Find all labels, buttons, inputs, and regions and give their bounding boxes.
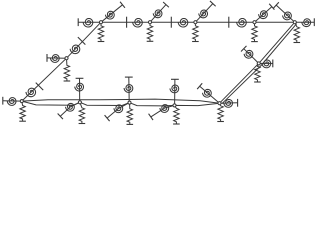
- wire stub B1: [3, 100, 22, 102]
- inductor L10: [283, 12, 292, 20]
- terminal stub T5: [274, 2, 279, 8]
- wire stub B3 up: [128, 77, 130, 103]
- wire stub B4 up: [174, 79, 176, 105]
- wire left diagonal lower segment: [22, 58, 67, 101]
- inductor L5: [302, 19, 311, 27]
- wire left diagonal upper segment: [67, 22, 102, 58]
- capacitor C2: [170, 17, 172, 28]
- wire stub B2 down-left: [60, 102, 80, 116]
- terminal stub B3 down-left: [105, 115, 110, 121]
- inductor L1: [83, 18, 93, 27]
- resistor R12: [255, 63, 260, 82]
- wire bottom upper chord: [22, 99, 220, 103]
- terminal stub B2 up: [76, 77, 84, 79]
- wire stub M2 right: [259, 62, 273, 64]
- terminal stub T3: [210, 1, 216, 6]
- resistor R9: [127, 103, 132, 125]
- capacitor C3: [228, 17, 230, 28]
- wire stub B4 down-left: [151, 105, 175, 117]
- resistor R11: [218, 103, 223, 121]
- inductor L22: [224, 100, 233, 108]
- node B4: [173, 104, 176, 107]
- wire stub M2 up-left: [244, 49, 259, 64]
- wire stub B3 down-left: [107, 103, 129, 119]
- resistor R8: [79, 102, 84, 123]
- inductor L15: [75, 83, 84, 91]
- node B3: [128, 101, 131, 104]
- resistor R5: [294, 22, 299, 42]
- node T5: [293, 21, 296, 24]
- node T1: [99, 21, 102, 24]
- wire stub T4: [255, 7, 272, 23]
- inductor L16: [66, 103, 75, 111]
- node M1: [65, 57, 68, 60]
- resistor R2: [147, 22, 152, 41]
- resistor R4: [252, 22, 257, 41]
- terminal stub B4 up: [171, 78, 179, 80]
- inductor L6: [105, 11, 114, 19]
- terminal stub B4 down-left: [149, 114, 153, 120]
- wire stub B5 up-left: [200, 86, 220, 103]
- node T4: [253, 21, 256, 24]
- inductor L9: [259, 11, 268, 19]
- wire stub B2 up: [79, 78, 81, 102]
- terminal stub B5 right: [237, 99, 239, 107]
- ground under R1: [98, 41, 105, 43]
- inductor L4: [237, 18, 247, 27]
- node B1: [20, 100, 23, 103]
- ground under R10: [173, 123, 180, 125]
- ground under R8: [79, 123, 86, 125]
- inductor L8: [199, 10, 208, 18]
- inductor L17: [124, 85, 133, 93]
- wire stub T2: [150, 5, 166, 23]
- wire top rail: [78, 21, 295, 23]
- ground under R5: [294, 42, 301, 44]
- inductor L11: [26, 88, 36, 97]
- wire stub T5: [276, 5, 295, 22]
- inductor L21: [203, 89, 212, 97]
- node M2: [257, 62, 260, 65]
- ground under R6: [64, 80, 71, 82]
- resistor R7: [20, 101, 25, 121]
- wire stub T3: [195, 4, 212, 23]
- terminal stub B5 up-left: [197, 83, 202, 89]
- inductor L2: [133, 18, 143, 27]
- ground under R4: [251, 41, 258, 43]
- resistor R3: [193, 22, 198, 41]
- resistor R1: [98, 22, 103, 41]
- wire stub M1: [47, 57, 67, 59]
- capacitor C5: [78, 37, 86, 45]
- terminal input left: [77, 18, 79, 26]
- node T2: [148, 21, 151, 24]
- node B2: [78, 101, 81, 104]
- ground under R12: [254, 81, 261, 83]
- terminal output right: [313, 18, 315, 26]
- terminal stub B1: [2, 97, 4, 105]
- wire bottom lower chord: [22, 101, 220, 106]
- inductor L3: [178, 18, 188, 27]
- wire stub T1: [101, 5, 123, 22]
- ground under R9: [127, 123, 134, 125]
- inductor L24: [262, 60, 271, 68]
- terminal stub B2 down-left: [58, 113, 63, 119]
- terminal stub B3 up: [125, 76, 133, 78]
- inductor L19: [170, 85, 179, 93]
- wire right diagonal direct edge: [222, 24, 297, 104]
- ground under R3: [192, 41, 199, 43]
- wire top-right output lead: [295, 21, 315, 23]
- ground under R7: [19, 120, 26, 122]
- wire stub B5 right: [220, 102, 238, 104]
- resistor R10: [174, 105, 179, 124]
- terminal stub T1: [120, 2, 125, 8]
- capacitor C4: [36, 83, 44, 91]
- terminal stub M2 right: [272, 60, 274, 68]
- inductor L14: [7, 98, 16, 106]
- wire right diagonal chain: [220, 22, 295, 103]
- resistor R6: [64, 58, 69, 81]
- inductor L18: [114, 105, 123, 113]
- inductor L23: [244, 50, 253, 58]
- inductor L20: [160, 105, 169, 113]
- capacitor C1: [126, 17, 128, 28]
- terminal stub T2: [163, 2, 169, 7]
- inductor L13: [50, 55, 59, 63]
- inductor L12: [70, 45, 80, 54]
- node B5: [218, 102, 221, 105]
- terminal stub T4: [269, 4, 274, 10]
- ground under R2: [147, 40, 154, 42]
- terminal stub M2 up-left: [241, 46, 246, 52]
- node T3: [194, 21, 197, 24]
- ground under R11: [217, 121, 224, 123]
- terminal stub M1: [46, 54, 48, 62]
- inductor L7: [153, 10, 162, 18]
